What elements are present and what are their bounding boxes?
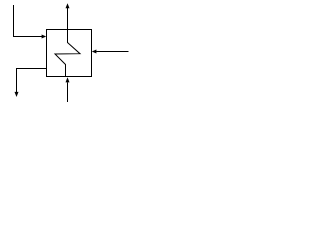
arrowhead inlet left, pointing right into box bbox=[42, 35, 47, 39]
heater unit box U1 bbox=[47, 30, 92, 77]
arrowhead outlet bottom-left, pointing down bbox=[15, 92, 19, 97]
wire outlet top bbox=[67, 8, 69, 30]
arrowhead inlet right, pointing left into box bbox=[92, 50, 97, 54]
arrowhead inlet bottom, pointing up into box bbox=[66, 77, 70, 82]
wire outlet bottom-left L line bbox=[17, 69, 47, 93]
arrowhead outlet top, pointing up bbox=[66, 3, 70, 8]
wire inlet left (top-left L line) bbox=[14, 5, 43, 37]
zigzag heater symbol inside box bbox=[55, 30, 80, 77]
wire inlet bottom bbox=[67, 83, 69, 103]
wire inlet right bbox=[96, 51, 128, 53]
